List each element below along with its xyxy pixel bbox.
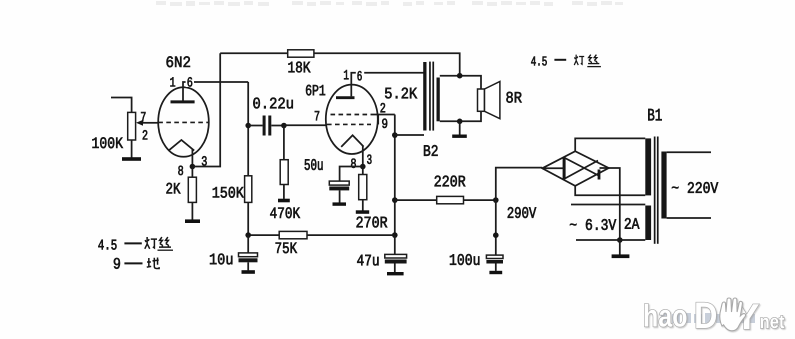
wire input stub [111, 98, 132, 113]
label 5.2K [385, 88, 417, 99]
label 10u [210, 254, 232, 265]
node A junction [245, 123, 251, 129]
transformer B1 6.3V winding [645, 206, 651, 241]
6N2 plate lead wire [183, 82, 248, 101]
hanzi deng (lamp) top [574, 55, 584, 65]
resistor R 75K [279, 231, 307, 238]
wire pot bottom lead [131, 140, 133, 158]
tube 6N2 envelope U1 [158, 87, 209, 157]
wire secondary bottom to speaker [440, 111, 481, 121]
hanzi si (silk) bottom [159, 237, 171, 247]
resistor R 270R [359, 167, 367, 211]
wire secondary top to speaker [440, 76, 481, 89]
label 50u [305, 159, 323, 170]
pin 8 (6N2) [178, 166, 183, 175]
label 2K [166, 183, 180, 194]
node B+ 290V junction [392, 197, 398, 203]
transformer B2 core [429, 62, 434, 131]
pin 8 (6P1) [349, 159, 358, 169]
label 290V [508, 207, 537, 218]
label 6P1 [306, 85, 325, 96]
pin 2 (6N2) [143, 130, 148, 139]
pin 1 (6N2) [170, 77, 175, 86]
pin 3 (6P1) [367, 155, 371, 164]
capacitor C 100u [486, 255, 503, 271]
node DC minus / 6.3V junction [617, 237, 623, 243]
wire screen/B+ riser [394, 115, 396, 236]
transformer B1 core [654, 137, 659, 244]
resistor R 2K [188, 167, 196, 220]
node 100u junction [493, 232, 499, 238]
node: 6N2 cathode junction [190, 164, 196, 170]
label 8R [506, 92, 521, 103]
resistor R 18K [288, 50, 314, 57]
wire 6.3V winding bottom [576, 239, 645, 241]
label ~ 220V [672, 182, 718, 193]
ground (bridge/6.3V) [612, 254, 630, 258]
wire bridge top AC [575, 138, 645, 151]
pin 2 (6P1) [381, 103, 386, 112]
6N2 plate bar [171, 100, 195, 103]
hanzi di (earth) [147, 258, 159, 269]
ground (50u) [333, 202, 347, 205]
ground (470K) [278, 199, 290, 203]
wire ground lead (bridge) [619, 240, 621, 255]
ground (270R) [356, 210, 369, 214]
node speaker ground junction [457, 119, 463, 125]
ground (speaker) [452, 135, 467, 138]
6P1 cathode [341, 135, 363, 147]
wire bridge bottom AC [575, 186, 645, 195]
label 18K [288, 62, 310, 73]
6P1 screen dashed line [331, 114, 374, 116]
label 220R [435, 176, 466, 187]
6P1 plate lead wire [351, 73, 424, 97]
speaker LS 8R [478, 82, 500, 119]
hand icon [720, 298, 746, 331]
label 4.5 filament (top) [531, 57, 547, 66]
label 100u [450, 254, 480, 265]
node NFB takeoff [457, 73, 463, 79]
ground (47u) [387, 272, 404, 275]
wire filter bus [248, 234, 395, 236]
label ~ 6.3V [570, 219, 616, 230]
potentiometer 100K body [128, 112, 136, 140]
wire NFB top run [220, 53, 460, 75]
ground (2K) [185, 219, 200, 223]
tube 6P1 envelope U2 [326, 85, 378, 154]
resistor R 220R [437, 196, 464, 203]
wire 290V riser to bridge [496, 168, 542, 201]
6P1 plate bar [336, 96, 355, 99]
wire 290V down to 100u [495, 200, 497, 255]
6N2 cathode lead wire [191, 149, 193, 166]
wire 6.3V winding top [571, 204, 645, 206]
ground (10u) [242, 270, 255, 274]
hanzi deng (lamp) bottom [145, 237, 157, 249]
node screen/B2 junction [392, 132, 398, 138]
transformer B1 primary winding [661, 152, 666, 219]
pin 6 (6N2) [186, 77, 194, 87]
wire node A riser (6N2 plate load) [247, 82, 249, 176]
pin 7 (6N2) [141, 112, 145, 121]
label 47u [357, 255, 378, 266]
resistor R 470K [280, 126, 288, 199]
dash (ground note) [124, 262, 142, 264]
transformer B2 secondary winding [437, 78, 440, 122]
underline under si [158, 249, 174, 251]
6N2 grid dashed line [158, 121, 209, 123]
label B2 [424, 145, 438, 156]
6N2 cathode [168, 140, 194, 151]
ground (pot) [122, 157, 141, 161]
wire speaker ground lead [459, 121, 461, 134]
bridge internal diagonals [542, 158, 609, 180]
pin 3 (6N2) [202, 156, 207, 165]
dash (top filament note) [554, 59, 566, 61]
label B1 [648, 109, 661, 121]
wire mains stub top [667, 151, 711, 153]
wire cathode to NFB riser [192, 53, 220, 166]
bridge internal diode bar [563, 157, 566, 179]
bridge small diode bar [598, 170, 601, 180]
node 47u junction [392, 232, 398, 238]
bridge rectifier diamond [542, 151, 609, 186]
hanzi si (silk) top [588, 55, 599, 64]
node 10u junction [245, 232, 251, 238]
wire to B2 primary bottom [395, 134, 424, 136]
resistor R 150K [245, 176, 252, 235]
node: 6P1 cathode junction [360, 164, 366, 170]
pin 6 (6P1) [356, 71, 364, 81]
transformer B2 primary winding [423, 62, 426, 131]
label 4.5 filament (bottom-left) [98, 240, 116, 250]
ground (100u) [489, 271, 502, 274]
capacitor C 10u [239, 235, 258, 270]
label 150K [213, 187, 244, 198]
wire grid feed 6P1 [284, 124, 327, 126]
wire pins 2/9 tie [374, 115, 395, 125]
pin 7 (6P1) [315, 111, 319, 120]
label 270R [357, 217, 388, 228]
watermark haoDIY.net [645, 298, 785, 331]
faint cropped gray text at top edge [156, 1, 623, 6]
wire mains stub bottom [667, 217, 711, 219]
label 0.22u [253, 98, 292, 109]
pin 9 (6P1) [382, 119, 387, 128]
capacitor C 0.22u [248, 116, 284, 136]
node 290V junction [493, 197, 499, 203]
label 6N2 [167, 56, 191, 67]
label 470K [270, 207, 300, 218]
label 2A [625, 218, 640, 229]
potentiometer 100K wiper arrow [136, 120, 159, 126]
label 9 ground note [114, 258, 120, 269]
6P1 cathode lead wire [362, 146, 364, 167]
node B junction [281, 123, 287, 129]
wire bridge DC minus [609, 168, 620, 240]
pin 1 (6P1) [344, 70, 348, 79]
underline under si (top) [587, 66, 601, 68]
label 100K [92, 137, 123, 148]
transformer B1 HV winding [645, 138, 651, 195]
label 75K [276, 243, 298, 254]
capacitor C 50u [329, 167, 363, 203]
6P1 grid dashed line [327, 123, 371, 125]
capacitor C 47u [385, 235, 407, 272]
dash (filament note) [124, 242, 141, 244]
wire B+ to 220R [395, 199, 496, 201]
